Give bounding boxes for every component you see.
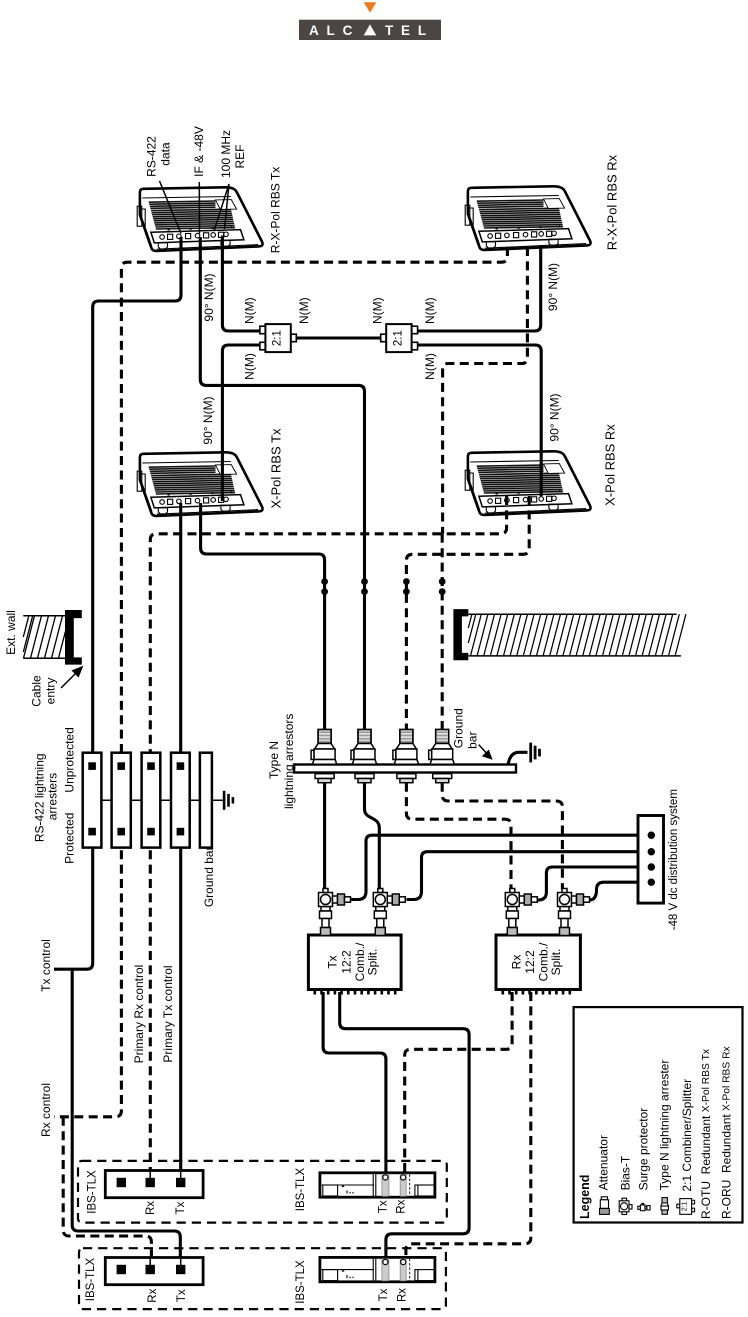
- svg-text:N(M): N(M): [423, 353, 437, 380]
- wire: unit2 90 N(M) to 2:1 box2 top port: [416, 245, 541, 331]
- ALCATEL logo: orange triangle: [364, 2, 377, 13]
- svg-text:Ground: Ground: [452, 708, 466, 748]
- svg-text:R-ORU Redundant X-Pol RBS Rx: R-ORU Redundant X-Pol RBS Rx: [720, 1045, 734, 1219]
- leader line: IF & -48V: [198, 182, 200, 234]
- svg-text:Bias-T: Bias-T: [618, 1155, 632, 1190]
- wire: unit3 IF & -48V down, right, down to arrestor1: [201, 503, 325, 730]
- svg-text:Attenuator: Attenuator: [596, 1135, 610, 1190]
- svg-text:Protected: Protected: [62, 813, 76, 864]
- arrester interconnect line to ground: [101, 799, 222, 801]
- svg-text:N(M): N(M): [423, 297, 437, 324]
- svg-text:ALC: ALC: [309, 23, 360, 38]
- svg-text:Rx: Rx: [145, 1201, 157, 1215]
- wire: arrestor1 bottom to bias-T1: [323, 783, 326, 889]
- svg-text:bar: bar: [466, 732, 480, 749]
- wire: Tx control branch down to row2 IBS-TLX Tx: [72, 969, 180, 1278]
- svg-text:Tx: Tx: [176, 1289, 188, 1302]
- X-Pol RBS Rx unit U4: [465, 451, 590, 515]
- wire: unit3 Primary Tx control straight down to row1 IBS-TLX: [179, 503, 182, 762]
- wire: 2:1 box2 bottom port down to unit4 RF connector: [416, 345, 541, 496]
- svg-text:Tx: Tx: [378, 1200, 390, 1213]
- row1 left IBS-TLX: [105, 1171, 203, 1198]
- leader line: 100 MHz REF (two pointers): [214, 184, 229, 231]
- dashed wire: Primary Rx control below arrester into row1 IBS-TLX Rx: [149, 836, 152, 1178]
- dashed wire: long RS-422 bus from unit2 connector1 to left drop: [121, 247, 507, 762]
- ground wire from bar: [508, 752, 528, 765]
- legend icon: 2:1 combiner: [677, 1199, 695, 1215]
- svg-text:2:1: 2:1: [272, 330, 284, 346]
- ground symbol at RS-422 ground bar: [224, 791, 233, 810]
- svg-text:Rx control: Rx control: [39, 1083, 53, 1137]
- 2:1 combiner U5: [260, 324, 296, 352]
- svg-text:IBS-TLX: IBS-TLX: [85, 1257, 97, 1301]
- dashed wire: arrestor3 bottom to bias-T3 on Rx comb: [406, 783, 511, 889]
- svg-text:Rx: Rx: [396, 1199, 408, 1213]
- svg-text:Type N: Type N: [267, 741, 281, 779]
- RS-422 ground bar: [200, 753, 212, 848]
- -48V terminal dots: [648, 832, 655, 886]
- dashed wire: RS-422 branch bus to unit4 connector1 and left corner down (Primary Rx control): [150, 496, 506, 762]
- bias-T 4 on Rx comb: [558, 889, 590, 936]
- RS-422 lightning arrester A1: [83, 753, 102, 848]
- svg-text:Ground bar: Ground bar: [202, 846, 216, 907]
- RS-422 lightning arrester A2: [112, 753, 131, 848]
- wire: Primary Tx control below arrester into row1 IBS-TLX Tx: [179, 836, 182, 1178]
- svg-text:Primary Rx control: Primary Rx control: [132, 965, 146, 1064]
- svg-text:RS-422 lightning: RS-422 lightning: [32, 753, 46, 842]
- svg-text:N(M): N(M): [371, 297, 385, 324]
- RS-422 lightning arrester A3: [142, 753, 161, 848]
- svg-text:REF: REF: [233, 145, 247, 169]
- Type N arrestor 1: [311, 730, 337, 783]
- dashed wire: arrestor4 bottom to bias-T4 on Rx comb: [442, 783, 562, 889]
- bias-T 3 on Rx comb: [505, 889, 537, 936]
- svg-text:2:1 Combiner/Splitter: 2:1 Combiner/Splitter: [680, 1079, 694, 1192]
- R-X-Pol RBS Tx unit U1: [137, 187, 262, 251]
- junction dots at cable entry (solid lines): [321, 578, 445, 595]
- wire: -48V dot1 to bias-T1 attenuator: [351, 835, 651, 899]
- svg-text:Cable: Cable: [30, 675, 44, 707]
- svg-text:data: data: [159, 142, 173, 166]
- Type N arrestor ground bar: [294, 765, 516, 773]
- wall left bracket: [65, 610, 82, 665]
- wire: unit1 IF & -48V down, right, down to arrestor2: [200, 237, 364, 730]
- Rx comb bottom connector teeth: [502, 991, 572, 995]
- svg-text:entry: entry: [44, 678, 58, 705]
- 2:1 combiner U6: [381, 324, 418, 352]
- external wall left segment with hatching: [23, 610, 82, 665]
- arrester terminal squares: [88, 762, 184, 835]
- svg-text:12:2: 12:2: [339, 950, 353, 974]
- legend icon: bias-T: [619, 1198, 632, 1214]
- svg-text:Tx control: Tx control: [39, 939, 53, 992]
- svg-text:Unprotected: Unprotected: [62, 727, 76, 792]
- R-X-Pol RBS Rx unit U2: [465, 186, 590, 250]
- svg-text:100 MHz: 100 MHz: [219, 130, 233, 178]
- Type N arrestor 2: [351, 730, 377, 783]
- wire: Tx comb port2 routed right of row1 box to row2 IBS-TLX Tx port: [340, 992, 469, 1261]
- leader line: RS-422 data: [160, 181, 182, 234]
- dashed wire: junction down to arrestor4: [441, 534, 444, 730]
- svg-text:N(M): N(M): [242, 353, 256, 380]
- row1 dashed equipment enclosure: [78, 1161, 447, 1223]
- wire: -48V dot2 to bias-T2 attenuator: [407, 852, 652, 900]
- svg-text:TEL: TEL: [385, 23, 434, 38]
- row2 left IBS-TLX: [105, 1258, 203, 1285]
- Rx 12:2 Comb./Split. box: [496, 935, 580, 990]
- row2 dashed equipment enclosure: [79, 1248, 446, 1309]
- dashed wire: Rx comb port2 routed right to row2 IBS-TLX Rx port: [406, 992, 531, 1261]
- dashed wire: left bus below arrester down to Rx control corner: [54, 836, 121, 1117]
- svg-text:lightning arrestors: lightning arrestors: [282, 714, 296, 809]
- svg-text:R-X-Pol RBS Rx: R-X-Pol RBS Rx: [605, 154, 620, 250]
- svg-text:Split.: Split.: [365, 949, 379, 976]
- ALCATEL logo: dark banner with white lettering: [299, 20, 441, 40]
- svg-text:Primary Tx control: Primary Tx control: [161, 965, 175, 1062]
- svg-text:-48 V dc distribution system: -48 V dc distribution system: [668, 789, 680, 930]
- wire: unit1 RS-422 data down, left to Tx control drop: [93, 237, 181, 762]
- wire: unit1 90 N(M) to 2:1 box1 top port: [222, 236, 260, 332]
- wire: -48V dot3 to bias-T3 attenuator: [538, 867, 652, 900]
- svg-text:90° N(M): 90° N(M): [546, 263, 560, 311]
- svg-text:Surge protector: Surge protector: [637, 1108, 651, 1191]
- Tx comb bottom connector teeth: [314, 991, 397, 995]
- svg-text:Tx: Tx: [378, 1288, 390, 1301]
- svg-text:Rx: Rx: [397, 1288, 409, 1302]
- bias-T 2 on Tx comb: [373, 889, 405, 936]
- RS-422 lightning arrester A4: [171, 753, 190, 848]
- svg-text:Rx: Rx: [147, 1288, 159, 1302]
- svg-text:90° N(M): 90° N(M): [201, 396, 215, 444]
- svg-text:Legend: Legend: [578, 1175, 592, 1219]
- svg-text:90° N(M): 90° N(M): [202, 273, 216, 321]
- Legend box: [574, 1007, 743, 1222]
- svg-text:Rx: Rx: [510, 955, 524, 970]
- svg-text:N(M): N(M): [297, 297, 311, 324]
- ground symbol at bar: [531, 743, 540, 763]
- dashed wire: unit2 connector2 down, left, down to RS-422 junction: [443, 247, 528, 534]
- Type N arrestor 4: [429, 730, 455, 783]
- svg-text:Ext. wall: Ext. wall: [4, 610, 18, 655]
- svg-text:Tx: Tx: [326, 955, 340, 968]
- svg-text:2:1: 2:1: [392, 330, 404, 346]
- dashed wire: Rx control branch down to row2 IBS-TLX Rx: [63, 1117, 151, 1278]
- X-Pol RBS Tx unit U3: [137, 452, 262, 516]
- svg-text:N(M): N(M): [242, 297, 256, 324]
- svg-text:IBS-TLX: IBS-TLX: [295, 1260, 307, 1304]
- legend icon: surge protector: [638, 1203, 650, 1210]
- wire: Tx control vertical below arrester, corner left, end under label: [54, 836, 93, 969]
- svg-text:12:2: 12:2: [523, 950, 537, 974]
- wire: -48V dot4 to bias-T4 attenuator: [590, 882, 652, 900]
- cable entry arrow: [61, 670, 79, 688]
- svg-text:90° N(M): 90° N(M): [548, 393, 562, 441]
- wire: 2:1 box1 bottom port down to unit3 RF connector: [222, 345, 260, 501]
- svg-text:arresters: arresters: [46, 773, 60, 820]
- svg-text:IF & -48V: IF & -48V: [192, 126, 206, 177]
- dashed wire: Rx comb port1 to row1 IBS-TLX Rx port: [405, 992, 512, 1176]
- svg-text:X-Pol RBS Tx: X-Pol RBS Tx: [269, 428, 284, 508]
- svg-text:RS-422: RS-422: [145, 136, 159, 177]
- row1 right IBS-TLX: [320, 1173, 435, 1197]
- external wall right segment with hatching: [453, 609, 686, 660]
- svg-text:R-X-Pol RBS Tx: R-X-Pol RBS Tx: [269, 167, 283, 253]
- row2 right IBS-TLX: [320, 1257, 435, 1281]
- bias-T 1 on Tx comb: [319, 889, 351, 936]
- junction dots at cable entry (dashed lines): [403, 578, 410, 585]
- Type N arrestor 3: [393, 730, 419, 783]
- wire: arrestor2 bottom S-jog to bias-T2: [365, 783, 380, 889]
- svg-text:IBS-TLX: IBS-TLX: [295, 1167, 307, 1211]
- Tx 12:2 Comb./Split. box: [308, 935, 401, 990]
- svg-text:IBS-TLX: IBS-TLX: [87, 1170, 99, 1214]
- svg-text:X-Pol RBS Rx: X-Pol RBS Rx: [603, 424, 618, 506]
- legend icon: type N arrester: [661, 1198, 668, 1215]
- wall right bracket: [453, 609, 468, 660]
- svg-text:R-OTU Redundant X-Pol RBS Tx: R-OTU Redundant X-Pol RBS Tx: [699, 1048, 713, 1219]
- wire: 2:1 box1 to 2:1 box2 interconnect: [295, 336, 382, 339]
- svg-text:Type N lightning arrester: Type N lightning arrester: [658, 1060, 672, 1191]
- -48V dc distribution box: [638, 816, 664, 904]
- ground bar arrow: [479, 745, 488, 755]
- legend icon: attenuator: [600, 1197, 610, 1215]
- wire: Tx comb port1 to row1 IBS-TLX Tx port: [323, 992, 386, 1176]
- svg-text:Tx: Tx: [175, 1201, 187, 1214]
- svg-text:2:1: 2:1: [682, 1201, 689, 1211]
- dashed wire: unit4 connector2 down, left, down to arrestor3: [406, 496, 529, 730]
- svg-text:Split.: Split.: [549, 949, 563, 976]
